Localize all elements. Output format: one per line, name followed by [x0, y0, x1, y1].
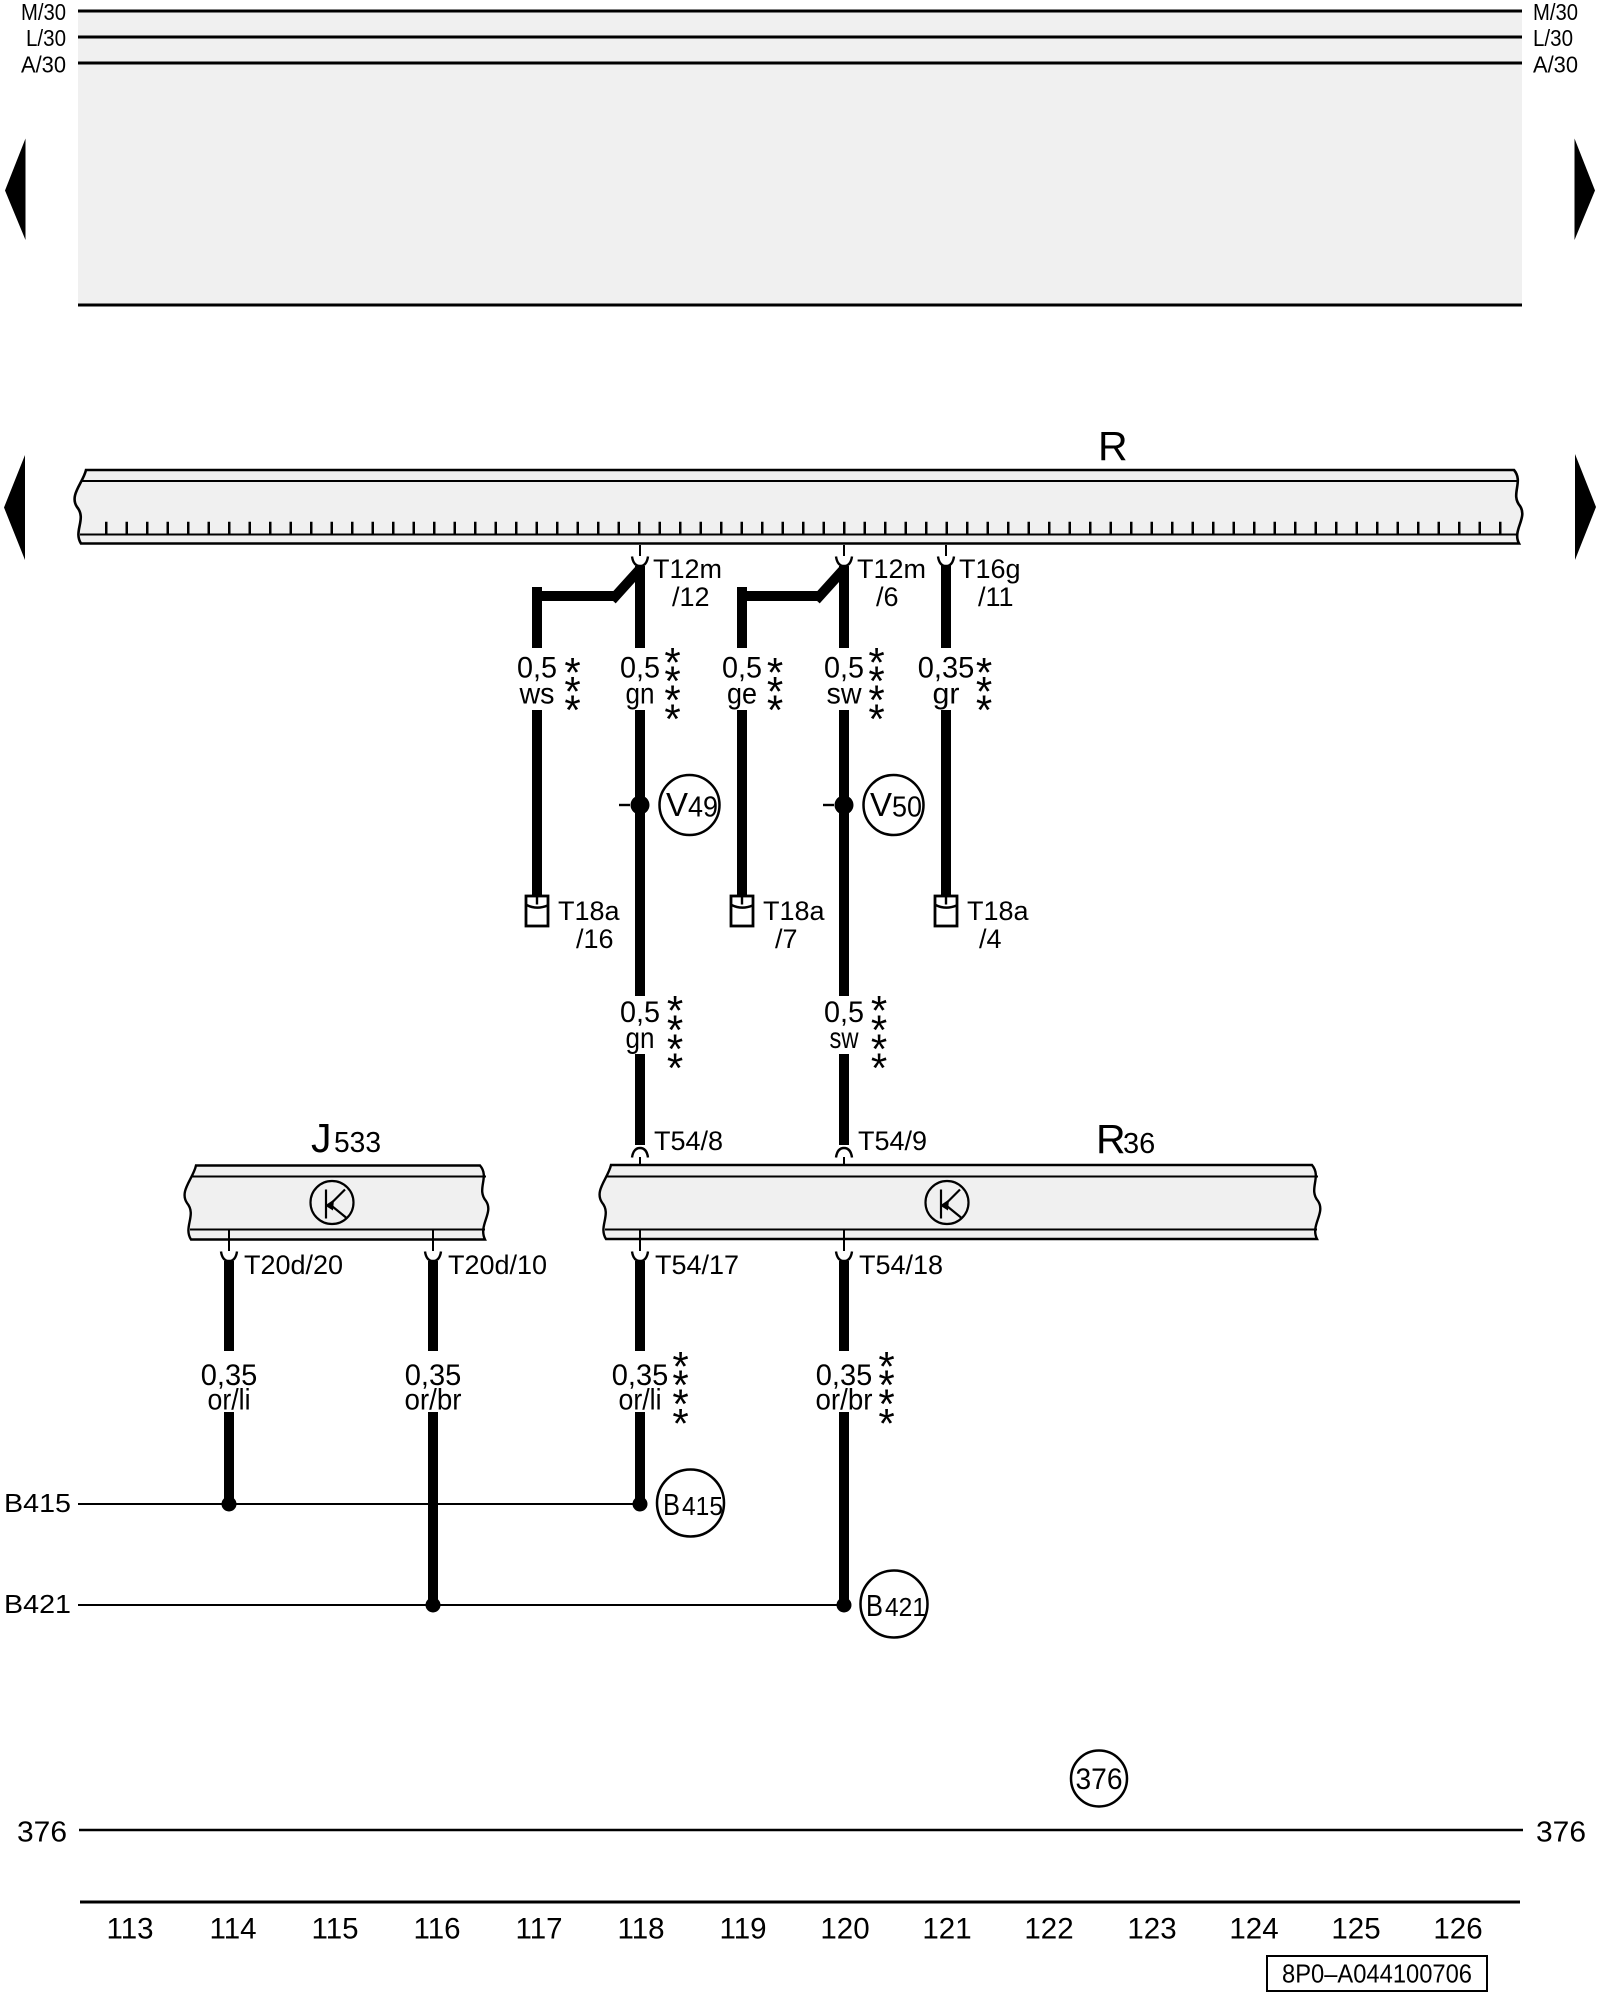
wire 0,5 ge upper run with elbow to T12m/6 — [737, 587, 747, 648]
pin T12m/12 terminal cup — [632, 557, 648, 567]
component reference circle V49 — [660, 775, 720, 835]
svg-text:121: 121 — [922, 1913, 971, 1946]
wire or/br from T20d/10 to B421 — [428, 1412, 438, 1605]
svg-text:or/br: or/br — [405, 1384, 462, 1417]
band bottom edge — [78, 304, 1522, 307]
R band inner bottom line — [80, 534, 1518, 536]
connector T18a/4 — [935, 896, 957, 926]
svg-text:B: B — [663, 1487, 680, 1522]
svg-text:/16: /16 — [576, 924, 614, 954]
svg-text:sw: sw — [830, 1022, 859, 1055]
svg-text:T20d/20: T20d/20 — [244, 1250, 343, 1280]
svg-text:124: 124 — [1229, 1913, 1278, 1946]
connector T18a/7 — [731, 896, 753, 926]
component R band (radio) — [75, 470, 1523, 544]
svg-text:V: V — [666, 786, 688, 823]
svg-text:376: 376 — [1076, 1763, 1123, 1796]
svg-text:gn: gn — [626, 678, 655, 711]
svg-text:119: 119 — [719, 1913, 766, 1946]
pin T16g/11 stub — [945, 545, 947, 556]
svg-text:A/30: A/30 — [1533, 52, 1578, 78]
svg-text:*: * — [664, 695, 680, 742]
connector T18a/16 — [526, 896, 548, 926]
svg-text:*: * — [767, 687, 783, 734]
component R36 band — [600, 1165, 1321, 1239]
wire L/30 — [78, 36, 1522, 39]
svg-text:421: 421 — [885, 1592, 926, 1622]
svg-text:T12m: T12m — [653, 554, 722, 584]
svg-text:ge: ge — [727, 678, 757, 711]
svg-text:B415: B415 — [4, 1488, 71, 1518]
svg-text:533: 533 — [334, 1127, 381, 1159]
svg-text:T54/9: T54/9 — [858, 1126, 927, 1156]
svg-text:376: 376 — [1536, 1817, 1586, 1849]
svg-text:or/li: or/li — [619, 1384, 662, 1417]
svg-text:115: 115 — [311, 1913, 358, 1946]
pin T20d/10 — [432, 1230, 434, 1251]
wire M/30 — [78, 10, 1522, 13]
svg-text:118: 118 — [617, 1913, 664, 1946]
svg-text:B421: B421 — [4, 1589, 71, 1619]
svg-text:36: 36 — [1123, 1128, 1155, 1160]
svg-text:/11: /11 — [978, 582, 1014, 612]
node line B415 — [78, 1503, 640, 1505]
R band connector ticks — [105, 522, 1505, 535]
svg-text:*: * — [868, 695, 884, 742]
svg-text:J: J — [311, 1115, 332, 1161]
svg-text:T18a: T18a — [763, 896, 826, 926]
K symbol in R36 — [926, 1181, 969, 1224]
svg-text:T16g: T16g — [959, 554, 1021, 584]
node circle B415 — [657, 1470, 724, 1537]
wire 376 — [79, 1829, 1523, 1831]
svg-text:/12: /12 — [672, 582, 710, 612]
junction dot on sw at V50 — [823, 804, 834, 806]
svg-text:*: * — [564, 687, 580, 734]
svg-text:49: 49 — [688, 792, 718, 824]
svg-text:120: 120 — [820, 1913, 869, 1946]
continuation arrow mid-left — [4, 455, 25, 560]
svg-text:*: * — [871, 1044, 887, 1091]
svg-text:376: 376 — [17, 1817, 67, 1849]
svg-text:/4: /4 — [979, 924, 1002, 954]
wire 0,5 ws upper run with elbow to T12m/12 — [532, 587, 542, 648]
svg-text:117: 117 — [515, 1913, 562, 1946]
svg-text:M/30: M/30 — [21, 0, 66, 25]
svg-text:R: R — [1096, 1116, 1126, 1162]
wire or/li from T54/17 to B415 — [635, 1412, 645, 1504]
svg-text:V: V — [870, 786, 892, 823]
pin T12m/6 terminal cup — [836, 557, 852, 567]
svg-text:T18a: T18a — [967, 896, 1030, 926]
svg-text:125: 125 — [1331, 1913, 1380, 1946]
svg-text:T54/8: T54/8 — [654, 1126, 723, 1156]
wire below T20d/10 — [428, 1261, 438, 1351]
pin T54/17 — [639, 1230, 641, 1251]
svg-text:or/br: or/br — [816, 1384, 873, 1417]
svg-text:116: 116 — [413, 1913, 460, 1946]
node circle B421 — [861, 1571, 928, 1638]
bottom separator line — [80, 1901, 1520, 1904]
svg-text:gr: gr — [933, 678, 960, 711]
R band inner top line — [81, 480, 1519, 482]
svg-text:L/30: L/30 — [26, 25, 66, 51]
svg-text:L/30: L/30 — [1533, 25, 1573, 51]
svg-text:*: * — [878, 1400, 894, 1447]
svg-text:T12m: T12m — [857, 554, 926, 584]
top supply band — [78, 11, 1522, 305]
wire below T20d/20 — [224, 1261, 234, 1351]
svg-text:415: 415 — [682, 1491, 723, 1521]
svg-text:sw: sw — [827, 678, 862, 711]
wire 0,5 gn upper run — [635, 566, 645, 648]
svg-text:114: 114 — [209, 1913, 256, 1946]
svg-text:A/30: A/30 — [21, 52, 66, 78]
wire 0,5 ws to T18a/16 — [532, 710, 542, 896]
svg-text:T54/17: T54/17 — [655, 1250, 739, 1280]
pin T12m/12 stub — [639, 545, 641, 556]
continuation arrow mid-right — [1575, 454, 1596, 560]
svg-text:*: * — [672, 1400, 688, 1447]
wire 0,35 gr to T18a/4 — [941, 710, 951, 896]
pin T16g/11 terminal cup — [938, 557, 954, 567]
svg-text:gn: gn — [626, 1022, 655, 1055]
svg-text:*: * — [667, 1044, 683, 1091]
svg-text:113: 113 — [106, 1913, 153, 1946]
wire 0,5 gn middle run — [635, 710, 645, 996]
svg-text:B: B — [866, 1588, 883, 1623]
pin T12m/6 stub — [843, 545, 845, 556]
svg-text:T54/18: T54/18 — [859, 1250, 943, 1280]
node line B421 — [78, 1604, 844, 1606]
wire below T54/18 — [839, 1261, 849, 1351]
component reference circle V50 — [864, 775, 924, 835]
svg-text:*: * — [976, 687, 992, 734]
track reference circle 376 — [1071, 1751, 1127, 1807]
wire below T54/17 — [635, 1261, 645, 1351]
pin T20d/20 — [228, 1230, 230, 1251]
svg-text:50: 50 — [892, 792, 922, 824]
svg-text:ws: ws — [519, 678, 555, 711]
pin T54/18 — [843, 1230, 845, 1251]
svg-text:or/li: or/li — [208, 1384, 251, 1417]
svg-text:T18a: T18a — [558, 896, 621, 926]
wire or/li from T20d/20 to B415 — [224, 1412, 234, 1504]
svg-text:8P0–A044100706: 8P0–A044100706 — [1282, 1959, 1472, 1989]
wire 0,5 sw to T54/9 — [839, 1054, 849, 1145]
part number box — [1267, 1956, 1487, 1991]
wire or/br from T54/18 to B421 — [839, 1412, 849, 1605]
wire 0,35 gr upper run — [941, 565, 951, 648]
svg-text:126: 126 — [1433, 1913, 1482, 1946]
continuation arrow top-right — [1575, 139, 1596, 241]
svg-text:T20d/10: T20d/10 — [448, 1250, 547, 1280]
svg-text:M/30: M/30 — [1533, 0, 1578, 25]
svg-text:123: 123 — [1127, 1913, 1176, 1946]
wire 0,5 sw upper run — [839, 566, 849, 648]
svg-text:/6: /6 — [876, 582, 899, 612]
junction dot on gn at V49 — [619, 804, 630, 806]
wire 0,5 gn to T54/8 — [635, 1054, 645, 1145]
svg-text:122: 122 — [1024, 1913, 1073, 1946]
wire 0,5 ge to T18a/7 — [737, 710, 747, 896]
wire A/30 — [78, 62, 1522, 65]
svg-text:/7: /7 — [775, 924, 798, 954]
wire 0,5 sw middle run — [839, 710, 849, 996]
continuation arrow top-left — [5, 139, 26, 241]
component J533 band (gateway) — [185, 1166, 489, 1240]
svg-text:R: R — [1098, 423, 1128, 469]
K symbol in J533 — [311, 1181, 354, 1224]
